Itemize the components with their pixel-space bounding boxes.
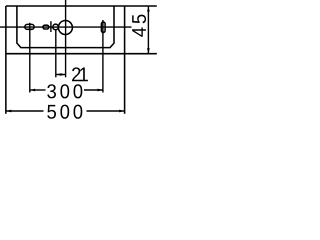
center wiring hole circle: [58, 21, 72, 35]
21-dim left extension line: [55, 30, 57, 78]
left mounting slot: [25, 24, 34, 29]
left slot centerline / 300-dim extension: [29, 23, 31, 93]
keyhole screw circle: [53, 24, 59, 30]
21-dim right arrowhead: [61, 73, 66, 76]
plate outer bottom edge + 45-dim extension line: [6, 53, 157, 55]
right slot centerline / 300-dim extension: [102, 20, 104, 93]
value label 21: [72, 67, 80, 81]
keyhole slot obround: [43, 25, 49, 29]
plate right edge + 500-dim extension line: [124, 6, 126, 114]
500-dim left arrowhead: [6, 110, 11, 113]
vertical center axis / 21-dim right extension: [65, 0, 67, 77]
300-dim dimension line right segment: [84, 89, 103, 91]
500-dim dimension line right segment: [87, 110, 125, 112]
500-dim right arrowhead: [119, 110, 124, 113]
value label 300: [47, 84, 56, 98]
value label 500: [47, 105, 56, 119]
500-dim dimension line left segment: [6, 110, 44, 112]
300-dim dimension line left segment: [30, 89, 46, 91]
value label 45 (rotated): [132, 15, 146, 37]
plate top edge + 45-dim extension line: [6, 5, 157, 7]
21-dim dimension line: [56, 74, 66, 76]
horizontal centerline: [0, 26, 132, 28]
300-dim right arrowhead: [98, 89, 103, 92]
300-dim left arrowhead: [30, 89, 35, 92]
45-dim top arrowhead: [147, 7, 150, 12]
plate inner contour with chamfered corners: [17, 6, 114, 48]
keyhole centerline tick: [50, 21, 52, 32]
plate left edge + 500-dim extension line: [5, 6, 7, 114]
right mounting slot: [101, 22, 105, 33]
21-dim left arrowhead: [56, 73, 61, 76]
45-dim dimension line: [147, 6, 149, 54]
45-dim bottom arrowhead: [147, 48, 150, 53]
